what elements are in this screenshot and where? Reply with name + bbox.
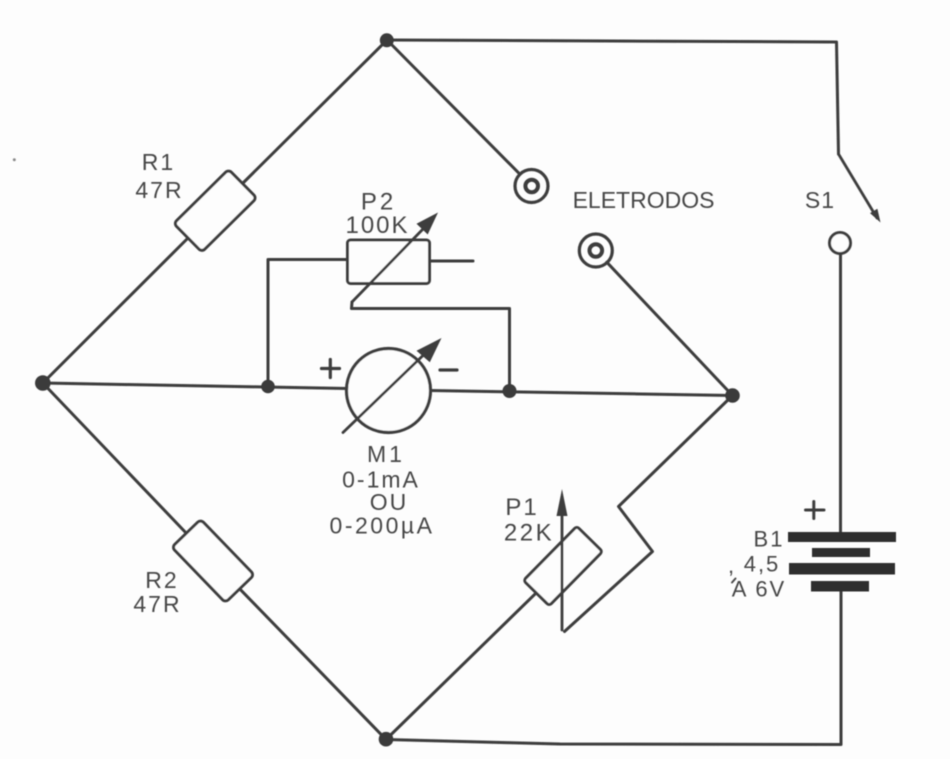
svg-text:22K: 22K — [504, 520, 554, 547]
svg-text:P1: P1 — [505, 494, 538, 521]
svg-text:R1: R1 — [142, 149, 175, 175]
wire P2 left terminal to junction — [268, 260, 348, 387]
wire S1 to battery — [839, 254, 842, 533]
wire R1 to left node — [43, 238, 188, 383]
svg-text:A 6V: A 6V — [732, 577, 786, 602]
svg-text:47R: 47R — [135, 177, 183, 203]
wire meter to right node — [431, 391, 733, 396]
label plus meter — [322, 360, 340, 378]
junction node P2 wiper — [503, 384, 517, 398]
wire left node to R2 — [43, 383, 187, 534]
label minus meter — [440, 368, 457, 371]
svg-text:M1: M1 — [367, 441, 405, 467]
potentiometer P1 wiper arrow — [557, 489, 568, 630]
wire right node to P1 wiper zigzag — [565, 396, 733, 632]
node bottom vertex — [379, 732, 394, 747]
node right vertex — [725, 388, 740, 403]
resistor R1 — [174, 169, 257, 252]
speck artifact — [13, 158, 16, 161]
wire battery to bottom node — [386, 592, 841, 745]
potentiometer P2 body — [348, 240, 430, 284]
wire R2 to bottom node — [239, 588, 386, 739]
svg-text:OU: OU — [370, 489, 409, 515]
resistor R2 — [172, 519, 254, 602]
node top vertex — [380, 33, 394, 47]
potentiometer P1 body — [524, 526, 603, 605]
wire top node to R1 — [242, 40, 387, 184]
wire top node to switch S1 — [387, 40, 839, 154]
svg-text:ELETRODOS: ELETRODOS — [573, 187, 715, 213]
svg-text:R2: R2 — [145, 567, 178, 593]
meter M1 — [347, 349, 431, 433]
svg-text:,: , — [728, 553, 734, 578]
battery B1 plate short — [812, 548, 870, 557]
label plus battery — [806, 502, 825, 519]
battery B1 plate long top — [788, 532, 896, 542]
svg-text:100K: 100K — [345, 212, 409, 239]
wire left node to meter — [43, 383, 348, 389]
svg-text:0-200µA: 0-200µA — [330, 513, 435, 539]
wire P2 right stub — [430, 260, 474, 263]
wire bottom node to P1 — [386, 593, 536, 740]
svg-text:4,5: 4,5 — [744, 552, 781, 577]
battery B1 plate long — [789, 563, 895, 575]
meter M1 needle arrow — [343, 338, 442, 433]
wire P2 wiper to junction — [352, 302, 510, 391]
svg-text:S1: S1 — [805, 187, 835, 213]
switch S1 lever arrow — [839, 154, 881, 223]
svg-text:47R: 47R — [133, 591, 181, 617]
wire electrode E2 to right node — [607, 262, 733, 395]
accent over A — [732, 579, 736, 583]
junction node P2 left — [261, 380, 275, 394]
wire top node to electrode E1 — [391, 44, 520, 174]
electrode E2 — [579, 234, 612, 267]
electrode E1 — [515, 170, 548, 203]
battery B1 plate short bottom — [811, 581, 869, 592]
potentiometer P2 wiper arrow — [352, 213, 438, 303]
svg-text:B1: B1 — [754, 527, 785, 552]
node left vertex — [35, 375, 51, 391]
switch S1 terminal circle — [830, 233, 851, 254]
